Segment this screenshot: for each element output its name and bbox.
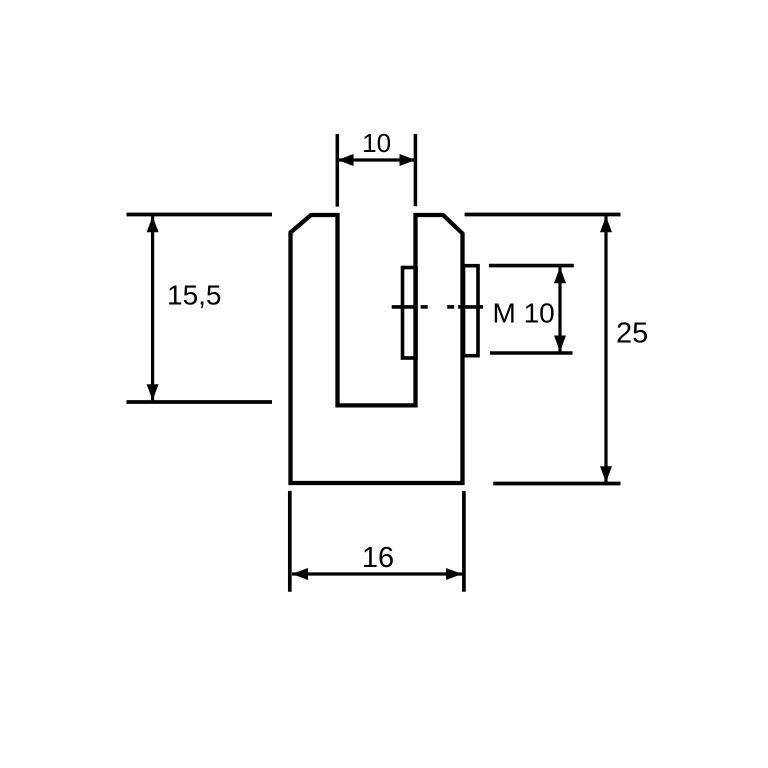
dimension 16: left arrowhead (292, 568, 308, 580)
dimension 25: top extension line (465, 213, 621, 217)
dimension 16: right arrowhead (446, 568, 462, 580)
dimension 25: bottom arrowhead (600, 466, 612, 482)
svg-text:M 10: M 10 (493, 298, 555, 329)
svg-text:16: 16 (362, 542, 394, 574)
dimension 15,5: bottom extension line (127, 400, 273, 404)
dimension M10: bottom extension line (490, 351, 573, 355)
svg-text:25: 25 (616, 318, 648, 350)
dimension 10: extension lines (337, 134, 415, 207)
dimension 16: dimension line (292, 572, 462, 575)
thread rectangle inner (left of right leg) (403, 268, 417, 359)
dimension 10: right arrowhead (400, 154, 416, 166)
dimension 25: bottom extension line (493, 482, 620, 486)
body outline (U-shaped clamp profile) (291, 215, 463, 483)
dimension 25: dimension line (604, 216, 607, 482)
dimension 16: right extension line (462, 491, 466, 592)
dimension 15,5: dimension line (151, 216, 154, 400)
dimension M10: top arrowhead (554, 267, 566, 283)
thread rectangle outer (right of right leg) (464, 266, 479, 356)
dimension M10: top extension line (489, 264, 574, 268)
dimension 10: dimension line (338, 158, 416, 161)
dimension 15,5: bottom arrowhead (147, 384, 159, 400)
centerline dashes (392, 305, 483, 309)
svg-text:15,5: 15,5 (167, 280, 222, 311)
dimension 10: left arrowhead (338, 154, 354, 166)
dimension 16: left extension line (288, 491, 292, 592)
svg-text:10: 10 (362, 128, 391, 158)
dimension M10: dimension line (558, 267, 561, 351)
dimension 15,5: top arrowhead (147, 216, 159, 232)
dimension 15,5: top extension line (127, 213, 273, 217)
dimension M10: bottom arrowhead (554, 336, 566, 352)
dimension 25: top arrowhead (600, 216, 612, 232)
